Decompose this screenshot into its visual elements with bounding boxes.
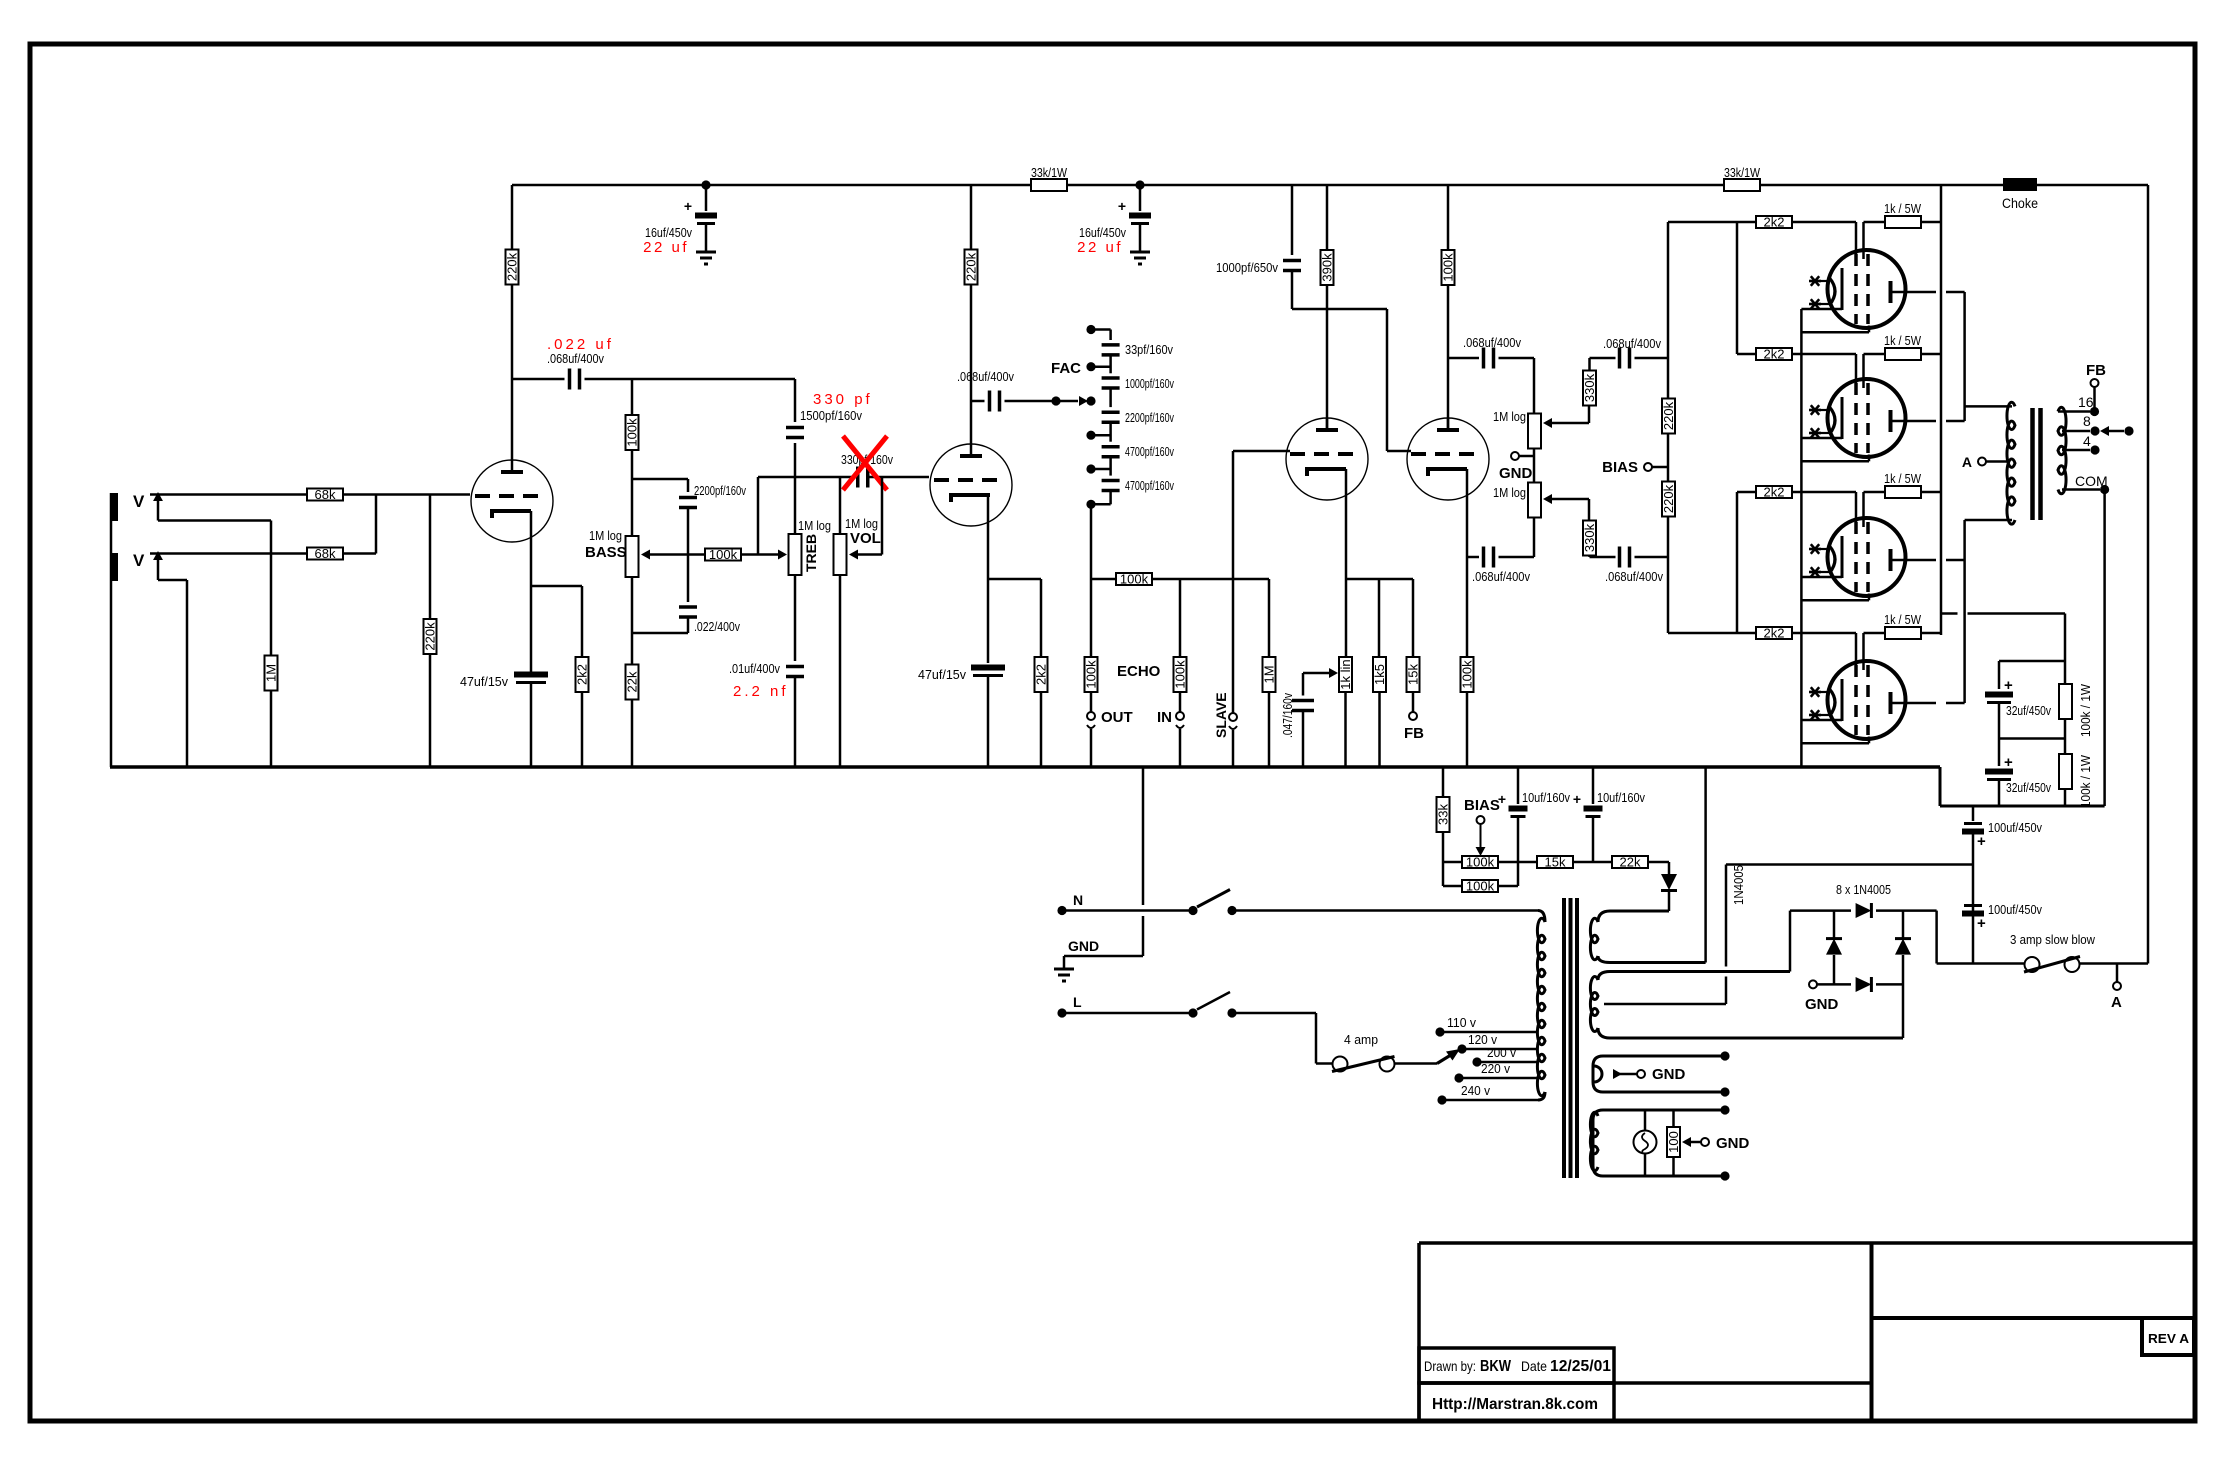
wire PI pots middle / GND — [1533, 449, 1536, 484]
wire fac bottom to echo — [1090, 504, 1093, 579]
svg-text:200 v: 200 v — [1487, 1045, 1516, 1060]
svg-text:22 uf: 22 uf — [643, 239, 689, 256]
resistor 15k — [1412, 579, 1415, 658]
svg-text:100k: 100k — [1173, 660, 1188, 689]
capacitor 33pf/160v — [1102, 343, 1120, 347]
svg-text:100k: 100k — [625, 418, 640, 447]
power transformer core — [1562, 898, 1566, 1178]
resistor 100k (slope) — [631, 379, 634, 415]
svg-text:15k: 15k — [1406, 664, 1421, 685]
capacitor 1500pf/160v (treble) — [794, 379, 797, 422]
svg-text:220k: 220k — [964, 252, 979, 281]
svg-text:4 amp: 4 amp — [1344, 1032, 1378, 1047]
svg-text:V: V — [133, 492, 145, 511]
wire PT2 grid entry — [1791, 353, 1856, 356]
wire N switch to primary — [1232, 909, 1538, 912]
resistor 22k (bass bottom) — [626, 665, 639, 700]
svg-text:1M: 1M — [1262, 665, 1277, 683]
wire heater1 GND tap — [1594, 1066, 1602, 1082]
svg-text:.068uf/400v: .068uf/400v — [1472, 569, 1530, 584]
svg-text:SLAVE: SLAVE — [1213, 692, 1229, 738]
wire PT1 screen entry — [1862, 222, 1865, 259]
wire ground bus step — [1939, 767, 1942, 806]
resistor 15k (bias) — [1537, 856, 1573, 868]
resistor 100k/1W (lower bleeder) — [2059, 754, 2072, 789]
resistor 2k2 (grid PT4) — [1756, 627, 1792, 639]
resistor 330k (top) — [1583, 371, 1596, 406]
resistor 33k (bias dropper) — [1442, 767, 1445, 797]
wire bias tap riser — [1725, 865, 1728, 967]
wire PT3 screen entry — [1862, 492, 1865, 527]
resistor 100k (echo in) — [1179, 579, 1182, 658]
svg-text:1k / 5W: 1k / 5W — [1884, 471, 1922, 486]
terminal L — [1057, 1008, 1066, 1017]
switch mains L — [1188, 1008, 1197, 1017]
resistor 2k2 (V2 cathode) — [1040, 579, 1043, 658]
resistor 100k (echo out shunt) — [1090, 579, 1093, 658]
svg-text:100k: 100k — [1120, 572, 1149, 587]
svg-text:+: + — [1977, 915, 1986, 932]
wire PT4 beam plates — [1801, 742, 1869, 745]
resistor 100 (humdinger) — [1672, 1110, 1675, 1127]
power transformer HT secondary 2 — [1598, 972, 1790, 981]
potentiometer 1k lin — [1339, 657, 1352, 692]
capacitor 4700pf/160v (fac2) — [1102, 479, 1120, 483]
potentiometer 1M log (PI top) — [1528, 414, 1541, 449]
wire PT3 grid entry — [1791, 491, 1856, 494]
tube PT3 — [1828, 518, 1906, 596]
title block drawn-by box — [1419, 1381, 1872, 1385]
ground (16uf 2) — [1130, 251, 1150, 254]
resistor 100k (V4 cathode) — [1461, 657, 1474, 692]
resistor 33k/1W (screen feed) — [1724, 179, 1760, 191]
resistor 1M (grid leak) — [270, 521, 273, 657]
wire .022 to bass bottom — [687, 617, 690, 633]
svg-text:330 pf: 330 pf — [813, 391, 873, 408]
svg-text:.01uf/400v: .01uf/400v — [729, 661, 780, 676]
svg-text:2k2: 2k2 — [1764, 626, 1785, 641]
svg-text:+: + — [1498, 791, 1506, 807]
wire ground bus — [110, 765, 1940, 769]
svg-text:Drawn by:: Drawn by: — [1424, 1358, 1476, 1374]
svg-text:240 v: 240 v — [1461, 1083, 1490, 1098]
svg-text:220k: 220k — [1661, 401, 1676, 430]
power transformer heater winding 2 — [1593, 1110, 1725, 1176]
svg-text:FB: FB — [2086, 362, 2106, 379]
wire V2 plate — [970, 285, 973, 445]
svg-text:16uf/450v: 16uf/450v — [1079, 225, 1126, 240]
svg-text:1k lin: 1k lin — [1338, 659, 1353, 689]
terminal BIAS — [1644, 463, 1652, 471]
svg-text:220k: 220k — [1661, 484, 1676, 513]
wire V1 cathode — [530, 511, 533, 586]
svg-text:100k: 100k — [1460, 660, 1475, 689]
resistor 68k (input2) — [307, 548, 343, 560]
tube PT2 — [1828, 379, 1906, 457]
svg-text:330k: 330k — [1582, 523, 1597, 552]
title block frame — [1419, 1241, 2193, 1245]
svg-text:2k2: 2k2 — [1764, 485, 1785, 500]
svg-text:GND: GND — [1652, 1066, 1686, 1083]
svg-text:1k / 5W: 1k / 5W — [1884, 333, 1922, 348]
svg-text:1k / 5W: 1k / 5W — [1884, 612, 1922, 627]
diode bridge right — [1895, 937, 1911, 940]
svg-text:BKW: BKW — [1480, 1358, 1511, 1375]
wire bridge out — [1935, 911, 1938, 964]
resistor 100k (bias upper) — [1443, 861, 1463, 864]
terminal IN — [1176, 712, 1184, 720]
fuse 4 amp — [1333, 1057, 1348, 1072]
svg-text:10uf/160v: 10uf/160v — [1522, 790, 1570, 805]
capacitor .068uf/400v (PI bottom) — [1482, 547, 1486, 568]
resistor 1k5 — [1373, 657, 1386, 692]
svg-text:ECHO: ECHO — [1117, 663, 1161, 680]
wire bridge left leg — [1789, 911, 1792, 972]
svg-text:BASS: BASS — [585, 544, 627, 561]
svg-text:Date: Date — [1521, 1358, 1547, 1374]
tube PT4 — [1828, 661, 1906, 739]
svg-text:2k2: 2k2 — [1764, 215, 1785, 230]
svg-text:4700pf/160v: 4700pf/160v — [1125, 478, 1174, 493]
wire voltage selector — [1395, 1062, 1438, 1065]
capacitor 16uf/450v (first filter) — [705, 185, 708, 211]
wire tap 16 — [2058, 410, 2090, 413]
wire screen rail — [1940, 185, 1943, 614]
wire PT1 grid entry — [1791, 221, 1856, 224]
wire PT2 screen entry — [1862, 354, 1865, 388]
svg-text:.047/160v: .047/160v — [1280, 693, 1295, 738]
svg-text:V: V — [133, 551, 145, 570]
wire 68k to grid junction — [343, 493, 470, 496]
capacitor 47uf/15v (V1 cathode) — [514, 672, 548, 678]
svg-text:1k5: 1k5 — [1372, 664, 1387, 685]
wire plates join upper — [1963, 292, 1966, 421]
svg-text:Choke: Choke — [2002, 195, 2038, 211]
svg-text:47uf/15v: 47uf/15v — [460, 674, 508, 689]
capacitor 47uf/15v (V2 cathode) — [971, 665, 1005, 671]
svg-text:+: + — [1573, 791, 1581, 807]
resistor 220k (bias lower) — [1662, 482, 1675, 517]
svg-text:33k/1W: 33k/1W — [1724, 165, 1761, 180]
tube PT1 — [1828, 250, 1906, 328]
terminal A (B+) — [2116, 964, 2119, 983]
fuse 3 amp slow blow — [2025, 957, 2040, 972]
wire bottom bias feed — [1668, 632, 1757, 635]
wire tap 4 — [2062, 449, 2090, 452]
wire input1 tip — [150, 493, 307, 496]
wire PT1 plate lead — [1891, 291, 1937, 294]
wire PT4 grid entry — [1791, 632, 1856, 635]
wire PT4 cathode exit — [1801, 719, 1842, 722]
resistor 2k2 (grid PT2) — [1756, 348, 1792, 360]
wire HT2 center tap — [1604, 1003, 1726, 1006]
svg-text:68k: 68k — [315, 487, 336, 502]
svg-text:100: 100 — [1666, 1131, 1681, 1153]
wire plates join lower — [1963, 520, 1966, 703]
svg-text:+: + — [2004, 677, 2013, 694]
terminal N — [1057, 906, 1066, 915]
wire B+ bus — [512, 184, 1032, 187]
svg-text:10uf/160v: 10uf/160v — [1597, 790, 1645, 805]
wire V2 cathode — [987, 495, 990, 579]
resistor 220k (bias upper) — [1662, 399, 1675, 434]
capacitor 4700pf/160v (fac) — [1102, 445, 1120, 449]
resistor 2k2 (grid PT3) — [1756, 486, 1792, 498]
capacitor .068uf/400v (bias top) — [1590, 357, 1616, 360]
power transformer primary — [1538, 911, 1545, 923]
terminal FB — [1409, 712, 1417, 720]
wire FAC chain — [1091, 328, 1111, 331]
wire screen filter mid — [1999, 737, 2065, 740]
svg-text:33k/1W: 33k/1W — [1031, 165, 1068, 180]
potentiometer BASS 1M log — [626, 536, 639, 577]
wire bridge GND line — [1809, 980, 1817, 988]
svg-text:GND: GND — [1068, 938, 1099, 954]
svg-text:100k: 100k — [1084, 660, 1099, 689]
svg-text:47uf/15v: 47uf/15v — [918, 667, 966, 682]
input jack J1 — [110, 493, 118, 521]
resistor 220k (grid ref) — [429, 495, 432, 620]
tube V2 — [930, 444, 1012, 526]
capacitor .068uf/400v (bias bottom) — [1590, 556, 1616, 559]
wire vol wiper — [849, 550, 858, 560]
svg-text:FB: FB — [1404, 725, 1424, 742]
potentiometer TREB 1M log — [789, 534, 802, 575]
svg-text:2k2: 2k2 — [575, 664, 590, 685]
capacitor .068uf/400v (PI top) — [1448, 357, 1479, 360]
output transformer core — [2030, 408, 2035, 520]
svg-text:100k: 100k — [1466, 855, 1495, 870]
svg-text:12/25/01: 12/25/01 — [1550, 1358, 1611, 1375]
svg-text:4700pf/160v: 4700pf/160v — [1125, 444, 1174, 459]
svg-text:+: + — [684, 198, 692, 214]
svg-text:100uf/450v: 100uf/450v — [1988, 820, 2042, 835]
wire N to switch — [1062, 909, 1193, 912]
svg-text:+: + — [1118, 198, 1126, 214]
capacitor 16uf/450v (second filter) — [1139, 185, 1142, 211]
svg-text:1M log: 1M log — [845, 516, 878, 531]
wire V4 grid stub — [1387, 450, 1411, 453]
svg-text:1M log: 1M log — [1493, 409, 1526, 424]
svg-text:.068uf/400v: .068uf/400v — [1605, 569, 1663, 584]
wire PT2 beam plates — [1801, 460, 1869, 463]
svg-text:3 amp slow blow: 3 amp slow blow — [2010, 932, 2096, 947]
wire PI pot1 wiper — [1543, 418, 1552, 428]
power transformer HT secondary 1 — [1598, 911, 1669, 922]
svg-text:1M log: 1M log — [1493, 485, 1526, 500]
svg-text:330k: 330k — [1582, 373, 1597, 402]
wire bridge diode left — [1833, 911, 1836, 938]
svg-text:.068uf/400v: .068uf/400v — [1603, 336, 1661, 351]
svg-text:220 v: 220 v — [1481, 1061, 1510, 1076]
svg-text:GND: GND — [1716, 1135, 1750, 1152]
svg-text:100k: 100k — [1466, 879, 1495, 894]
capacitor 32uf/450v (lower) — [1998, 739, 2001, 767]
svg-text:1M log: 1M log — [589, 528, 622, 543]
wire PT1 beam plates — [1801, 331, 1869, 334]
wire PT3 cathode exit — [1801, 576, 1842, 579]
resistor 100k (bias lower) — [1443, 885, 1463, 888]
svg-text:1k / 5W: 1k / 5W — [1884, 201, 1922, 216]
svg-text:+: + — [1977, 833, 1986, 850]
wire jack sleeve to ground — [110, 493, 113, 767]
wire V3 grid from slave — [1233, 450, 1290, 453]
wire PT1 cathode exit — [1801, 308, 1842, 311]
resistor 2k2 (V1 cathode) — [581, 586, 584, 658]
switch FAC contacts — [1086, 325, 1095, 334]
wire bridge top — [1790, 909, 1851, 912]
wire L switch to fuse — [1232, 1012, 1316, 1015]
svg-text:.022 uf: .022 uf — [547, 336, 614, 353]
red X mark — [843, 436, 887, 490]
ground (16uf 1) — [696, 251, 716, 254]
wire PI pot2 wiper — [1543, 494, 1552, 504]
svg-text:22k: 22k — [625, 671, 640, 692]
lamp — [1644, 1110, 1647, 1131]
resistor 68k (input1) — [307, 489, 343, 501]
wire input2 arrow — [153, 551, 163, 560]
svg-text:390k: 390k — [1320, 253, 1335, 282]
svg-text:100k / 1W: 100k / 1W — [2078, 683, 2093, 737]
diode bridge bottom — [1856, 977, 1872, 992]
terminal SLAVE — [1229, 713, 1237, 721]
svg-text:4: 4 — [2083, 433, 2091, 449]
wire V4 cathode — [1466, 469, 1469, 658]
wire top bias feed — [1668, 221, 1757, 224]
resistor 1k/5W (PT1 screen) — [1885, 216, 1921, 228]
resistor 1k/5W (PT2 screen) — [1885, 348, 1921, 360]
svg-text:1000pf/160v: 1000pf/160v — [1125, 376, 1174, 391]
svg-text:Http://Marstran.8k.com: Http://Marstran.8k.com — [1432, 1396, 1598, 1413]
wire screen filter feed — [1941, 612, 1958, 615]
resistor 33k/1W (preamp feed) — [1031, 179, 1067, 191]
capacitor .022/400v — [679, 605, 697, 609]
terminal FB (speaker) — [2093, 387, 2096, 412]
capacitor .01uf/400v — [786, 665, 804, 669]
resistor 220k (V2 plate load) — [970, 185, 973, 249]
diode bridge left — [1826, 937, 1842, 940]
svg-text:33pf/160v: 33pf/160v — [1125, 342, 1173, 357]
power transformer primary taps — [1435, 1027, 1444, 1036]
svg-text:2200pf/160v: 2200pf/160v — [1125, 410, 1174, 425]
wire choke to PSU — [2147, 185, 2150, 964]
capacitor .068uf/400v (V1 coupling) — [512, 378, 565, 381]
tube V3 — [1286, 418, 1368, 500]
svg-text:.068uf/400v: .068uf/400v — [1463, 335, 1521, 350]
svg-text:110 v: 110 v — [1447, 1015, 1476, 1030]
wire humdinger GND — [1682, 1137, 1691, 1147]
svg-text:2200pf/160v: 2200pf/160v — [694, 483, 746, 498]
capacitor .068uf/400v (V2 coupling) — [971, 400, 985, 403]
svg-text:N: N — [1073, 892, 1083, 908]
capacitor 10uf/160v (bias 1) — [1517, 767, 1520, 804]
diode bridge top — [1856, 903, 1872, 918]
capacitor 100uf/450v (lower) — [1964, 904, 1982, 907]
capacitor 330pf/160v (bright) — [856, 467, 860, 488]
ground mains — [1142, 767, 1145, 905]
svg-text:100uf/450v: 100uf/450v — [1988, 902, 2042, 917]
resistor 220k (V1 plate load) — [511, 185, 514, 249]
wire echo send — [1091, 578, 1116, 581]
resistor 1k/5W (PT4 screen) — [1885, 627, 1921, 639]
wire PT4 screen entry — [1862, 633, 1865, 670]
svg-text:IN: IN — [1157, 709, 1172, 726]
svg-text:100k / 1W: 100k / 1W — [2078, 754, 2093, 808]
switch mains N — [1188, 906, 1197, 915]
resistor 100k/1W (upper bleeder) — [2059, 684, 2072, 719]
resistor 330k (bottom) — [1583, 521, 1596, 556]
svg-text:OUT: OUT — [1101, 709, 1133, 726]
resistor 1M (slave shunt) — [1268, 579, 1271, 658]
node bus junction 1 — [701, 180, 710, 189]
resistor 1k/5W (PT3 screen) — [1885, 486, 1921, 498]
svg-text:22k: 22k — [1620, 855, 1641, 870]
svg-text:FAC: FAC — [1051, 360, 1081, 377]
wire bridge right leg — [1902, 911, 1905, 938]
wire V3 cathode — [1345, 469, 1348, 658]
svg-text:REV A: REV A — [2148, 1331, 2190, 1346]
wire PI pot2 bottom — [1533, 518, 1536, 558]
output transformer primary — [2007, 402, 2015, 524]
capacitor 2200pf/160v — [679, 496, 697, 500]
wire bias divider riser — [1667, 222, 1670, 398]
resistor 100k (bass-treble) — [641, 550, 650, 560]
svg-text:68k: 68k — [315, 546, 336, 561]
svg-text:.068uf/400v: .068uf/400v — [547, 351, 604, 366]
svg-text:100k: 100k — [709, 547, 738, 562]
resistor 390k (V3 plate load) — [1326, 185, 1329, 250]
wire PT3 beam plates — [1801, 599, 1869, 602]
svg-text:1500pf/160v: 1500pf/160v — [800, 408, 862, 423]
svg-text:220k: 220k — [423, 622, 438, 651]
wire HT1 bottom to ground — [1704, 767, 1707, 963]
diode 1N4005 (bias rectifier) — [1647, 861, 1669, 864]
wire input2 tip — [150, 552, 307, 555]
wire PT2 plate lead — [1891, 420, 1937, 423]
wire PT3 plate lead — [1891, 559, 1937, 562]
capacitor 32uf/450v (upper) — [1999, 660, 2065, 663]
svg-text:VOL: VOL — [850, 530, 881, 547]
wire speaker select arrow — [2100, 426, 2109, 436]
wire input1 arrow — [153, 492, 163, 501]
capacitor 10uf/160v (bias 2) — [1592, 767, 1595, 804]
svg-text:16: 16 — [2078, 394, 2094, 410]
wire L to switch — [1062, 1012, 1193, 1015]
svg-text:8 x 1N4005: 8 x 1N4005 — [1836, 882, 1891, 897]
node bus junction 2 — [1135, 180, 1144, 189]
svg-text:2.2 nf: 2.2 nf — [733, 683, 789, 700]
svg-text:2k2: 2k2 — [1034, 664, 1049, 685]
wire treb bottom — [794, 575, 797, 661]
svg-text:L: L — [1073, 994, 1082, 1010]
svg-text:.068uf/400v: .068uf/400v — [957, 369, 1014, 384]
svg-text:33k: 33k — [1436, 804, 1451, 825]
resistor 2k2 (grid PT1) — [1756, 216, 1792, 228]
resistor 100k (echo send series) — [1116, 573, 1152, 585]
svg-text:8: 8 — [2083, 413, 2091, 429]
svg-text:100k: 100k — [1441, 253, 1456, 282]
wire NFB node — [1346, 578, 1413, 581]
wire bias tap mid caps — [1726, 863, 1973, 866]
capacitor 2200pf/160v (fac) — [1102, 410, 1120, 414]
svg-text:32uf/450v: 32uf/450v — [2006, 703, 2051, 718]
svg-text:220k: 220k — [505, 252, 520, 281]
svg-text:.022/400v: .022/400v — [694, 619, 740, 634]
input jack J2 — [110, 553, 118, 581]
wire slope to caps — [632, 478, 688, 481]
wire tap 8 — [2062, 430, 2090, 433]
svg-text:A: A — [2111, 994, 2122, 1011]
